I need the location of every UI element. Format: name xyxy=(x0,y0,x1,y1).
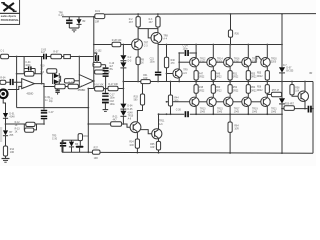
svg-text:R-16 10K: R-16 10K xyxy=(94,85,104,87)
wire zener cell left xyxy=(61,140,63,152)
junction xyxy=(281,152,283,154)
svg-text:4558D: 4558D xyxy=(27,94,34,96)
resistor R20 xyxy=(68,82,78,88)
svg-text:R-13: R-13 xyxy=(15,128,21,130)
resistor R16 xyxy=(94,85,104,91)
resistor R3 (vert under rail) xyxy=(149,14,161,27)
capacitor C102 (film) xyxy=(94,50,102,62)
svg-text:4K7: 4K7 xyxy=(129,22,134,24)
resistor R35 (TR11 emitter) xyxy=(150,139,160,154)
vertical x16.6 (feedback) xyxy=(16,57,18,108)
wire y107.6 xyxy=(17,107,89,109)
vertical x88.3 xyxy=(87,89,89,153)
svg-text:TR6: TR6 xyxy=(59,12,64,14)
rail2 left segment xyxy=(94,44,112,46)
labels mid-left column xyxy=(40,65,45,74)
resistor R26 column x231 top xyxy=(228,13,239,45)
diode D11 xyxy=(53,73,61,84)
transistor Q4 xyxy=(207,97,224,114)
svg-text:R-21: R-21 xyxy=(113,116,119,118)
svg-text:R26: R26 xyxy=(235,34,240,36)
rail2 right segment y44.5 xyxy=(158,44,282,46)
junction xyxy=(5,123,7,125)
resistor R52 xyxy=(228,82,239,98)
wire U1 out to x44 xyxy=(35,84,45,87)
svg-text:R40: R40 xyxy=(171,60,176,62)
svg-text:C21: C21 xyxy=(150,58,155,60)
wire zobel y109 xyxy=(282,108,313,110)
wire TR9 collector xyxy=(178,53,180,69)
wire x313 right edge xyxy=(312,82,314,154)
junction xyxy=(166,73,168,75)
capacitor C16 (electrolytic to gnd) xyxy=(66,17,72,28)
zener D8 xyxy=(279,82,285,110)
svg-text:R-07: R-07 xyxy=(53,51,59,53)
svg-text:0R22: 0R22 xyxy=(233,77,239,79)
capacitor C28 (zobel film) xyxy=(308,73,313,113)
diode D10 xyxy=(54,73,60,78)
trimmer VR1 xyxy=(62,55,95,59)
svg-text:TR19: TR19 xyxy=(252,108,258,110)
svg-text:R-19: R-19 xyxy=(55,82,61,84)
input jack J1 xyxy=(0,90,8,114)
svg-text:0R22: 0R22 xyxy=(199,90,205,92)
svg-text:1943: 1943 xyxy=(200,112,206,114)
svg-text:R34: R34 xyxy=(129,142,134,144)
wire Q10 emitter xyxy=(266,107,268,115)
transistor TR7 xyxy=(132,39,149,50)
wire R21 to TR10 base xyxy=(122,124,131,127)
logo X glyph xyxy=(1,3,16,12)
svg-text:R36: R36 xyxy=(83,136,88,138)
svg-text:1K: 1K xyxy=(15,125,18,127)
svg-text:R64: R64 xyxy=(234,125,239,127)
transistor TR9 driver xyxy=(173,69,188,78)
svg-text:TR20: TR20 xyxy=(271,58,277,60)
svg-text:R48: R48 xyxy=(199,87,204,89)
junction xyxy=(304,108,306,110)
resistor R47 xyxy=(194,67,205,83)
wire TRB collector xyxy=(157,29,159,33)
svg-text:TR16: TR16 xyxy=(234,58,240,60)
svg-text:1K: 1K xyxy=(15,131,18,133)
wire y86.5 xyxy=(44,85,79,88)
svg-text:1943: 1943 xyxy=(234,112,240,114)
svg-text:R56: R56 xyxy=(257,87,262,89)
junction xyxy=(304,81,306,83)
transistor Q5 xyxy=(224,57,241,66)
transistor TR8b xyxy=(151,33,168,44)
svg-text:TR17: TR17 xyxy=(234,108,240,110)
junction xyxy=(87,88,89,90)
resistor R37 series bottom rail xyxy=(92,148,100,160)
svg-text:5200: 5200 xyxy=(271,62,277,64)
junction xyxy=(247,44,249,46)
wire TR22 emitter xyxy=(304,101,306,109)
svg-text:C-05: C-05 xyxy=(41,49,47,51)
transistor TR10 xyxy=(128,115,141,132)
svg-text:10R: 10R xyxy=(94,158,99,160)
svg-text:10K: 10K xyxy=(295,91,300,93)
transistor Q10 xyxy=(261,97,278,114)
svg-text:10R: 10R xyxy=(234,129,239,131)
svg-text:R14: R14 xyxy=(10,149,15,151)
junction xyxy=(87,123,89,125)
junction xyxy=(281,113,283,115)
wire top rail left xyxy=(62,16,95,18)
transistor Q2 xyxy=(190,97,207,114)
wire Q5 collector xyxy=(229,45,231,58)
svg-text:TR15: TR15 xyxy=(217,108,223,110)
svg-text:C-17: C-17 xyxy=(110,95,116,97)
junction xyxy=(93,80,95,82)
svg-text:D-01: D-01 xyxy=(9,114,15,116)
resistor R34 xyxy=(129,139,139,154)
junction xyxy=(281,13,283,15)
transistor TR11 xyxy=(152,121,165,139)
svg-text:R-04: R-04 xyxy=(0,77,6,79)
junction xyxy=(123,88,125,90)
diode D5 xyxy=(120,109,133,124)
wire B y124 xyxy=(88,123,110,125)
svg-text:10R: 10R xyxy=(95,22,100,24)
svg-text:0R22: 0R22 xyxy=(216,77,222,79)
junction xyxy=(195,113,197,115)
resistor R55 xyxy=(257,67,269,83)
resistor R36 xyxy=(78,134,88,146)
svg-text:TR9: TR9 xyxy=(183,70,188,72)
svg-text:TR18: TR18 xyxy=(252,58,258,60)
wire diode-chain mid xyxy=(122,82,124,104)
node stub op2 -in xyxy=(78,57,80,75)
svg-text:R44: R44 xyxy=(174,97,179,99)
resistor R44 column x170.5 xyxy=(168,81,179,115)
junction xyxy=(195,44,197,46)
svg-text:C-30: C-30 xyxy=(52,139,58,141)
junction xyxy=(281,81,283,83)
svg-text:TR12: TR12 xyxy=(200,58,206,60)
wire TRB emitter to rail2 xyxy=(157,43,159,44)
svg-text:1K: 1K xyxy=(141,62,144,64)
transistor Q8 xyxy=(242,97,259,114)
svg-text:TR7: TR7 xyxy=(144,42,149,44)
svg-text:R37: R37 xyxy=(94,148,99,150)
label C16 xyxy=(59,12,65,17)
capacitor C2 input (electrolytic) xyxy=(10,79,14,85)
svg-text:D-04: D-04 xyxy=(127,106,133,108)
svg-text:TR14: TR14 xyxy=(217,58,223,60)
resistor R57 xyxy=(266,90,282,97)
wire diode-chain top xyxy=(122,45,124,56)
svg-text:1943: 1943 xyxy=(217,112,223,114)
capacitor C6 column x44 xyxy=(41,87,55,125)
bottom rail y152-153 xyxy=(62,152,313,153)
zener D z1 xyxy=(77,17,87,28)
wire rail2 to TR7 base xyxy=(121,44,132,46)
capacitor C30 xyxy=(60,140,66,152)
junction xyxy=(212,113,214,115)
left edge smudge xyxy=(0,127,2,142)
svg-text:4K7: 4K7 xyxy=(149,22,154,24)
svg-text:R35: R35 xyxy=(150,144,155,146)
wire TR11 collector xyxy=(158,114,160,129)
resistor R56 xyxy=(257,82,269,98)
wire top rail right xyxy=(105,13,316,16)
op-amp U1 xyxy=(22,79,35,96)
junction xyxy=(170,113,172,115)
wire TR9 base xyxy=(167,73,174,75)
wire Q9 collector xyxy=(266,45,268,58)
mid rail y81.5 xyxy=(123,81,313,83)
svg-text:C-04: C-04 xyxy=(25,62,31,64)
wire A y114.2 xyxy=(158,113,184,115)
diode D7 xyxy=(279,67,294,81)
resistor R18 xyxy=(95,65,111,74)
svg-text:D-05: D-05 xyxy=(127,109,133,111)
svg-text:R52: R52 xyxy=(233,87,238,89)
resistor R21 xyxy=(111,116,122,126)
wire Q6 emitter xyxy=(229,107,231,115)
svg-text:R58: R58 xyxy=(295,87,300,89)
svg-text:R54: R54 xyxy=(251,87,256,89)
wire Q4 emitter xyxy=(212,107,214,115)
wire TR9 emitter xyxy=(178,78,180,82)
resistor R14 xyxy=(3,146,14,158)
transistor TR22 xyxy=(298,91,308,101)
ground (psu cell) xyxy=(69,28,79,32)
svg-text:R57 47: R57 47 xyxy=(272,90,280,92)
wire feedback vert x41.6 xyxy=(41,57,43,84)
wire y56.5 xyxy=(9,56,43,58)
capacitor C10 (electrolytic) xyxy=(103,63,115,90)
op-amp U2 xyxy=(78,75,94,92)
svg-text:100n: 100n xyxy=(110,98,116,100)
resistor R54 xyxy=(246,82,257,98)
svg-text:4148: 4148 xyxy=(127,113,133,115)
svg-text:10R: 10R xyxy=(143,78,148,80)
svg-text:C-07: C-07 xyxy=(49,112,55,114)
capacitor C17/C18 (below wire) xyxy=(102,89,115,111)
svg-text:100n: 100n xyxy=(183,48,189,50)
wire U1 -in xyxy=(6,81,22,83)
svg-text:R31: R31 xyxy=(143,75,148,77)
resistor R59 (zobel) xyxy=(284,104,295,111)
diode D1 xyxy=(3,113,15,124)
junction top-left xyxy=(93,16,95,18)
resistor R30 column x166.5 upper xyxy=(164,44,175,82)
wire TR10 to TR11 xyxy=(141,130,152,134)
svg-text:10R: 10R xyxy=(10,152,15,154)
junction xyxy=(123,123,125,125)
wire y88.5 xyxy=(94,88,124,90)
transistor Q7 xyxy=(242,57,259,66)
junction xyxy=(266,113,268,115)
svg-text:8R: 8R xyxy=(309,73,312,75)
svg-text:1943: 1943 xyxy=(271,112,277,114)
wire TR10 emitter xyxy=(136,132,139,139)
svg-text:100u: 100u xyxy=(110,104,116,106)
junction xyxy=(16,81,18,83)
svg-text:audio eXperts: audio eXperts xyxy=(1,15,17,18)
junction xyxy=(158,113,160,115)
wire TR9 collector to bank bases xyxy=(179,61,189,63)
svg-text:R-01: R-01 xyxy=(95,11,101,13)
capacitor C9 xyxy=(49,89,60,104)
resistor R48 xyxy=(194,82,205,98)
wire cross y28.6 xyxy=(138,27,158,29)
wire TR22 collector xyxy=(304,82,306,92)
svg-text:C-24: C-24 xyxy=(183,46,189,48)
resistor R12 xyxy=(15,122,44,127)
junction xyxy=(281,44,283,46)
svg-text:4K7: 4K7 xyxy=(113,119,118,121)
resistor R58 xyxy=(290,81,300,97)
svg-text:0R22: 0R22 xyxy=(257,90,263,92)
resistor R64 (below wireA) xyxy=(228,114,239,154)
wire Q2 emitter xyxy=(195,107,197,115)
wire U1 +in (from jack) xyxy=(8,86,22,89)
junction xyxy=(312,108,314,110)
svg-text:R51: R51 xyxy=(233,73,238,75)
wire Q8 emitter xyxy=(247,107,249,115)
resistor R4 series rail2 xyxy=(112,40,122,47)
diode D4 xyxy=(120,104,133,111)
svg-text:C-10: C-10 xyxy=(109,63,115,65)
svg-text:TR5: TR5 xyxy=(52,136,57,138)
capacitor C24 (film, top) xyxy=(178,46,196,58)
junction xyxy=(16,56,18,58)
junction xyxy=(229,113,231,115)
svg-text:R47: R47 xyxy=(199,73,204,75)
logo text xyxy=(1,15,20,22)
diode D2 xyxy=(120,55,126,62)
svg-text:C18: C18 xyxy=(110,101,115,103)
junction xyxy=(123,44,125,46)
resistor R7 xyxy=(47,51,62,58)
resistor R31 on mid rail xyxy=(141,75,151,84)
transistor Q6 xyxy=(224,97,241,114)
svg-text:1K: 1K xyxy=(40,69,43,71)
wire TR7 collector xyxy=(137,29,139,40)
transistor Q3 xyxy=(207,57,224,66)
svg-text:0R22: 0R22 xyxy=(233,90,239,92)
svg-text:R-28 100: R-28 100 xyxy=(112,40,122,42)
junction xyxy=(123,81,125,83)
svg-text:10R: 10R xyxy=(129,145,134,147)
label D07 area xyxy=(283,65,287,67)
junction xyxy=(195,52,197,54)
base chain top row xyxy=(199,61,207,63)
capacitor C5 series (y56) xyxy=(41,49,47,59)
junction xyxy=(93,44,95,46)
resistor R4 input xyxy=(0,77,6,84)
wire U2 out down xyxy=(88,88,94,90)
svg-text:R55: R55 xyxy=(257,73,262,75)
zener cell bottom: label xyxy=(52,136,58,141)
resistor R33 (below rail to TR10) xyxy=(134,83,145,122)
svg-text:C-06: C-06 xyxy=(45,97,51,99)
vertical x93.8 (op2 output net) xyxy=(93,17,95,89)
svg-text:R-12: R-12 xyxy=(15,122,21,124)
resistor R49 xyxy=(211,67,222,83)
svg-text:R10: R10 xyxy=(40,65,45,67)
ground (input chain) xyxy=(2,159,10,163)
resistor R5 input xyxy=(0,51,8,59)
resistor R50 xyxy=(211,82,222,98)
transistor Q1 xyxy=(190,57,207,66)
svg-text:C-26: C-26 xyxy=(176,109,182,111)
capacitor C21 (TRB emitter) xyxy=(150,45,162,83)
diode D6 xyxy=(3,124,14,146)
junction xyxy=(266,44,268,46)
svg-text:0R22: 0R22 xyxy=(199,77,205,79)
base chain bottom row xyxy=(167,101,190,103)
svg-text:R49: R49 xyxy=(216,73,221,75)
svg-text:R59 4R7: R59 4R7 xyxy=(285,104,295,106)
junction xyxy=(178,81,180,83)
svg-text:R-20: R-20 xyxy=(68,82,74,84)
resistor R13 (parallel) xyxy=(15,124,37,133)
resistor R11 xyxy=(47,69,57,73)
svg-text:R53: R53 xyxy=(251,73,256,75)
junction xyxy=(212,44,214,46)
wire x282 lower xyxy=(281,109,283,154)
svg-text:0R22: 0R22 xyxy=(257,76,263,78)
junction xyxy=(41,73,43,75)
wire Q1 collector xyxy=(195,45,197,58)
resistor R2 (vert under rail) xyxy=(129,14,141,27)
junction xyxy=(41,83,43,85)
svg-text:R-17 10K: R-17 10K xyxy=(108,84,118,86)
diode D3 xyxy=(120,57,132,81)
resistor R53 xyxy=(246,67,257,83)
junction xyxy=(78,56,80,58)
junction xyxy=(247,113,249,115)
svg-text:R33: R33 xyxy=(134,96,139,98)
svg-text:TR11: TR11 xyxy=(159,121,165,123)
svg-text:TR13: TR13 xyxy=(200,108,206,110)
wire zener cell top xyxy=(62,139,78,141)
vertical x282 (neg rail drop) xyxy=(281,14,283,67)
svg-text:BY: BY xyxy=(9,132,13,134)
wire Q3 collector xyxy=(212,45,214,58)
junction xyxy=(43,86,45,88)
resistor R51 xyxy=(228,67,239,83)
svg-text:R50: R50 xyxy=(216,87,221,89)
capacitor C4 xyxy=(24,57,35,74)
svg-text:C-102: C-102 xyxy=(95,50,102,52)
svg-text:4148: 4148 xyxy=(9,117,15,119)
resistor R15 xyxy=(64,79,79,83)
logo box xyxy=(0,0,20,24)
svg-text:D-07: D-07 xyxy=(286,67,292,69)
svg-text:10R: 10R xyxy=(150,147,155,149)
svg-text:100u: 100u xyxy=(150,61,156,63)
resistor R1 (series in rail) xyxy=(95,11,105,24)
junction xyxy=(87,107,89,109)
junction xyxy=(178,61,180,63)
svg-text:TR8: TR8 xyxy=(163,35,168,37)
resistor R32 (TR7 emitter) xyxy=(136,50,145,83)
junction xyxy=(157,13,159,15)
junction dots wireA xyxy=(166,113,168,115)
node dots on top rail xyxy=(137,13,139,15)
capacitor C26 (film on wireA) xyxy=(176,109,189,117)
wire Q7 collector xyxy=(247,45,249,58)
transistor Q9 xyxy=(261,57,278,66)
svg-text:TR10: TR10 xyxy=(128,115,134,117)
resistor R19 xyxy=(55,82,65,88)
